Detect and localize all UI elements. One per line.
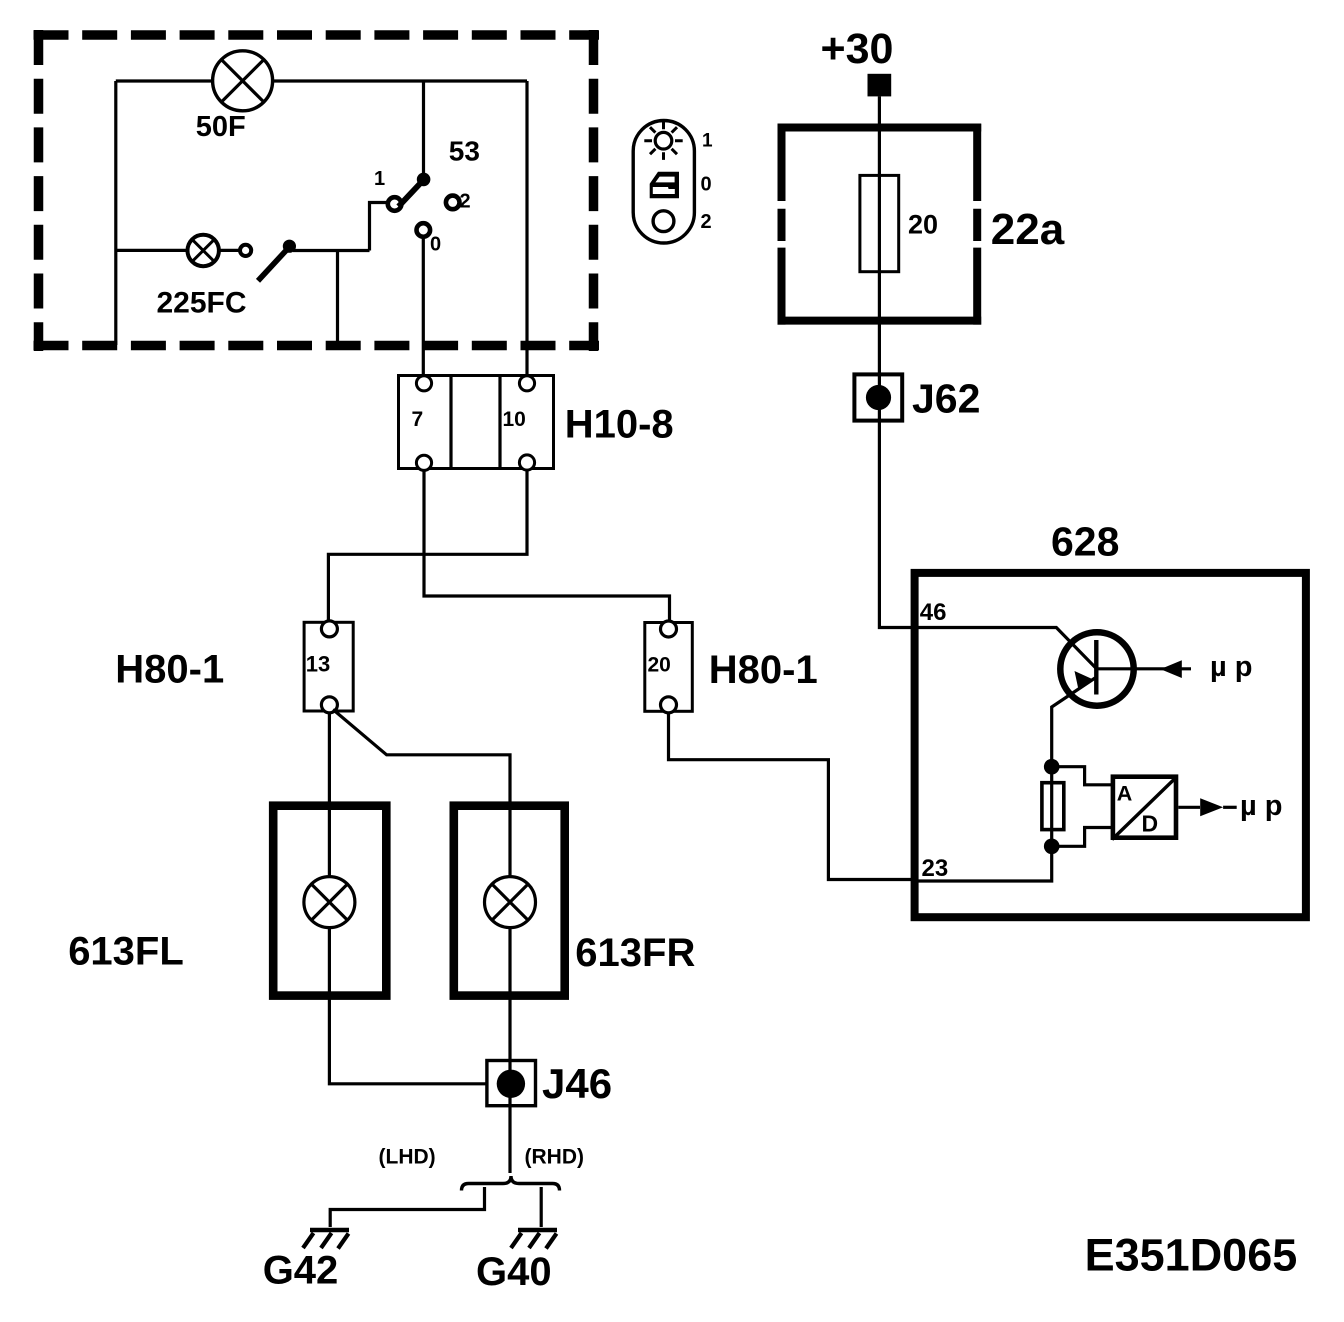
svg-text:613FL: 613FL	[68, 930, 184, 974]
wire through resistor to pin 23	[914, 767, 1052, 881]
terminal of 225FC switch	[240, 245, 251, 256]
parking light symbol (position 0)	[650, 172, 679, 198]
ground G42	[303, 1230, 349, 1249]
svg-text:D: D	[1142, 811, 1159, 837]
wire H10-8 pin7 to H80-1 pin20	[424, 470, 670, 622]
junction J46	[487, 1061, 536, 1106]
A/D converter U1	[1112, 777, 1177, 840]
lamp 50F	[213, 51, 273, 111]
svg-text:A: A	[1117, 781, 1133, 805]
wire from top bus to lever pivot	[422, 81, 425, 174]
wire from lever to switch 53	[293, 249, 370, 252]
light switch position icon	[633, 121, 713, 244]
wire pin 46 to transistor collector	[914, 628, 1096, 669]
svg-text:+30: +30	[821, 25, 894, 73]
wire contact 0 down to H10-8 pin 7	[422, 237, 425, 376]
wire H10-8 pin10 to H80-1 pin13	[328, 470, 527, 622]
switch 53 contact 1	[388, 197, 402, 211]
wire pin13 diagonal to lamp 613FR and down to brace	[333, 710, 510, 1174]
svg-text:225FC: 225FC	[157, 286, 247, 319]
sun symbol (position 1)	[655, 132, 672, 149]
svg-text:µ p: µ p	[1240, 790, 1282, 822]
wire left vertical	[114, 81, 117, 345]
wire top bus	[116, 79, 527, 82]
svg-text:628: 628	[1051, 519, 1119, 565]
wire LHD leg to ground G42	[330, 1187, 484, 1227]
svg-text:G40: G40	[476, 1250, 552, 1294]
fuse holder 22a dashed box	[778, 124, 982, 325]
svg-text:G42: G42	[263, 1248, 339, 1292]
connector H80-1 pin13	[304, 621, 353, 713]
svg-text:H80-1: H80-1	[115, 647, 224, 691]
svg-text:(RHD): (RHD)	[525, 1146, 584, 1169]
svg-text:613FR: 613FR	[575, 931, 695, 975]
svg-text:2: 2	[701, 211, 712, 233]
svg-text:20: 20	[648, 653, 671, 676]
svg-text:20: 20	[908, 209, 938, 239]
wire stub to bottom border	[336, 251, 339, 345]
svg-text:0: 0	[701, 174, 712, 196]
control unit 628 box	[915, 573, 1306, 917]
wire pin13 down to J46 junction	[329, 713, 487, 1084]
svg-text:10: 10	[503, 408, 526, 431]
svg-text:2: 2	[460, 191, 471, 213]
wire RHD leg to ground G40	[540, 1187, 543, 1227]
emitter	[1052, 678, 1095, 767]
pin 10 circles	[519, 376, 534, 391]
off symbol (position 2)	[653, 211, 674, 232]
wire step up to contact 1	[370, 203, 389, 251]
dashed enclosure box (switch assembly 53)	[34, 30, 600, 351]
svg-text:H80-1: H80-1	[709, 648, 818, 692]
svg-text:23: 23	[922, 855, 949, 882]
wire 225FC branch	[116, 249, 240, 252]
junction dot (top)	[1044, 759, 1060, 775]
fuse 20 element	[860, 175, 899, 271]
connector H10-8	[399, 376, 554, 471]
wire top junction to A/D	[1052, 767, 1112, 785]
switch 53 contact 2	[446, 196, 460, 210]
A/D output to microprocessor	[1178, 806, 1200, 809]
supply terminal square	[868, 74, 892, 97]
junction J62	[854, 374, 902, 420]
base bar	[1094, 640, 1098, 695]
sensing resistor	[1042, 783, 1064, 830]
brace below J46	[462, 1176, 560, 1191]
wire bottom junction to A/D	[1052, 828, 1112, 847]
lamp housing 613FR	[454, 806, 565, 996]
switch 53 contact 0	[417, 223, 431, 237]
transistor Q1	[1052, 632, 1191, 766]
switch lever (225FC contact)	[258, 240, 296, 281]
svg-text:13: 13	[306, 651, 330, 676]
svg-text:1: 1	[374, 168, 385, 190]
connector H80-1 pin20	[645, 621, 693, 713]
svg-text:7: 7	[412, 408, 424, 431]
svg-text:1: 1	[702, 131, 713, 152]
svg-text:46: 46	[920, 599, 947, 626]
switch 53 lever	[399, 173, 431, 207]
lamp 225FC	[188, 235, 219, 266]
base lead to microprocessor	[1096, 667, 1191, 670]
svg-text:(LHD): (LHD)	[379, 1146, 436, 1169]
wire right vertical to H10-8 pin 10	[525, 81, 528, 376]
svg-text:53: 53	[449, 135, 480, 166]
svg-text:J62: J62	[912, 376, 980, 422]
svg-text:J46: J46	[542, 1060, 612, 1107]
wire +30 down through fuse 22a and J62 to unit 628	[879, 96, 914, 627]
svg-text:H10-8: H10-8	[565, 403, 674, 447]
lamp 613FR bulb	[485, 877, 536, 928]
svg-text:50F: 50F	[196, 111, 246, 143]
lamp 613FL bulb	[304, 877, 355, 928]
wire pin20 down to unit 628 pin 23	[669, 713, 915, 880]
lamp housing 613FL	[273, 806, 386, 996]
svg-text:µ p: µ p	[1210, 651, 1252, 683]
svg-text:0: 0	[430, 233, 441, 255]
ground G40	[511, 1230, 557, 1249]
pin 7 circles	[416, 376, 431, 391]
junction dot (bottom)	[1044, 839, 1060, 855]
svg-text:22a: 22a	[991, 205, 1065, 254]
svg-text:E351D065: E351D065	[1085, 1230, 1298, 1281]
